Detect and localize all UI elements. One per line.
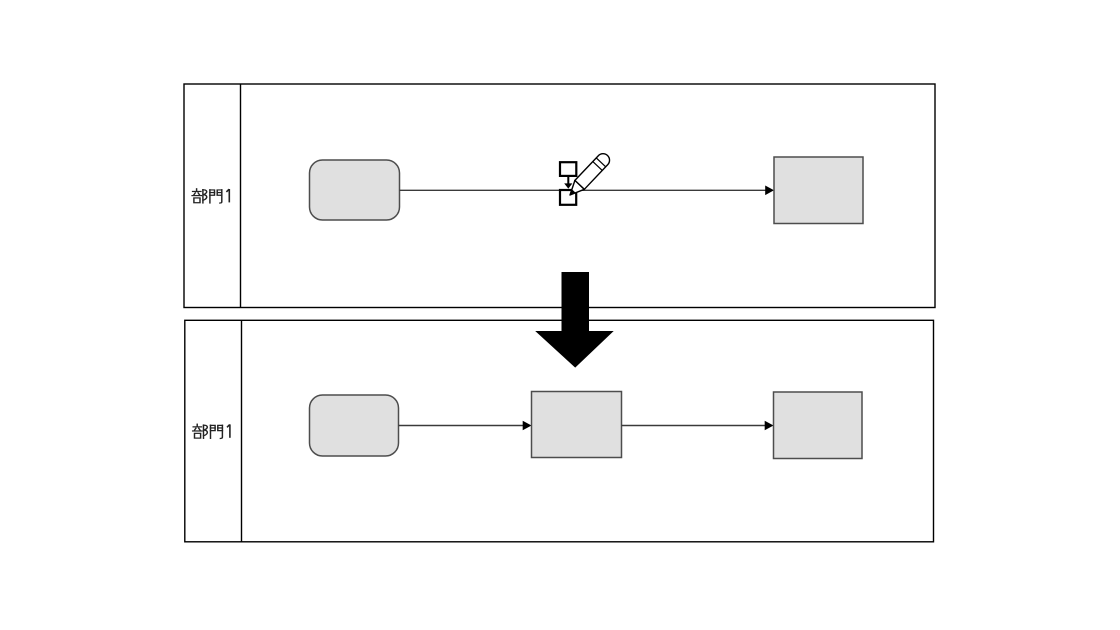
部 top tick <box>196 189 198 191</box>
wire bottom connector 1 <box>399 425 524 427</box>
wire bottom connector 2 <box>622 425 766 427</box>
pencil tip <box>565 180 584 199</box>
pencil lead <box>568 189 575 196</box>
部 horizontal 1 <box>193 190 201 192</box>
transform arrow (black, between lanes) <box>535 272 614 368</box>
pencil body <box>575 151 612 189</box>
arrowhead bottom connector 2 <box>765 421 774 431</box>
lane label 部門1 (top) <box>192 189 222 203</box>
門 right box <box>217 190 222 195</box>
部 small dots <box>194 193 195 195</box>
部 right ear bumps <box>203 190 207 200</box>
swimlane bottom (部門1) <box>185 320 934 542</box>
insert icon: bottom small square <box>560 190 576 205</box>
insert icon: top small square <box>560 162 576 176</box>
insert icon: connector arrow down <box>567 176 569 184</box>
lane label 部門1 (bottom) <box>193 424 223 438</box>
start node rounded rect (top lane) <box>310 160 400 220</box>
部 right ear vertical <box>202 190 204 203</box>
門 left box <box>210 190 215 195</box>
部 mouth box <box>194 198 200 203</box>
arrowhead top connector <box>765 186 774 196</box>
inserted process node rect (bottom lane middle) <box>532 392 622 458</box>
swimlane top (部門1) <box>184 84 935 308</box>
swimlane top header divider <box>240 84 242 308</box>
部 horizontal 2 <box>192 195 201 197</box>
swimlane bottom header divider <box>241 320 243 542</box>
digit 1 (bottom) <box>227 424 230 437</box>
wire top connector <box>400 189 766 191</box>
arrowhead bottom connector 1 <box>523 421 532 431</box>
門 right vertical hook <box>220 190 222 203</box>
process node rect (bottom lane right) <box>774 392 863 459</box>
digit 1 (top) <box>226 189 229 202</box>
pencil icon <box>565 151 612 199</box>
start node rounded rect (bottom lane) <box>310 395 399 456</box>
門 left vertical <box>209 190 211 203</box>
pencil bands <box>593 162 602 171</box>
process node rect (top lane right) <box>774 157 863 224</box>
